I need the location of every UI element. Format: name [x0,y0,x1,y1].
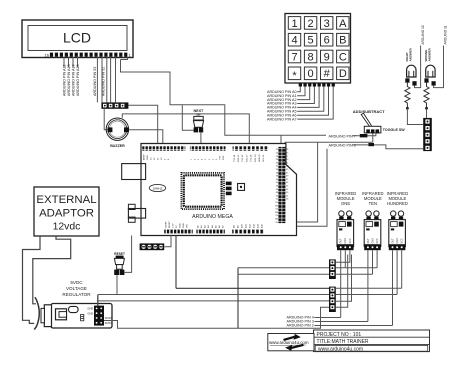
keypad pin row [299,83,335,86]
svg-text:ARDUINO PIN A14: ARDUINO PIN A14 [71,64,75,96]
wire B2 pin4 right riser [336,255,348,308]
svg-text:IOREF: IOREF [165,221,167,228]
wire buzzer left pad to connector J3 pin1 [104,109,108,130]
svg-text:GND: GND [147,155,149,160]
wire row142 from board pins around to bottom pins [285,142,373,222]
svg-text:16: 16 [45,53,50,58]
svg-text:VCC: VCC [376,238,379,243]
svg-text:1: 1 [291,18,297,30]
svg-text:ARDUINO PIN A12: ARDUINO PIN A12 [62,64,66,96]
board right pin block (22-53) [275,147,289,224]
wire row151 loop to board pin 53 [282,149,327,227]
svg-text:GND: GND [344,238,347,244]
wire J2 to board bottom [164,236,171,247]
wire M2 OUT down to pin3 row [367,250,369,321]
label 5VDC VOLTAGE REGULATOR [62,280,91,297]
svg-text:ARDUINO PIN A7: ARDUINO PIN A7 [267,117,297,121]
jumper block pin7 [360,134,368,137]
voltage regulator board VR1 [41,304,112,329]
svg-text:GND: GND [396,238,399,244]
wire buzzer top to board top pin [122,114,249,144]
svg-text:3.3V: 3.3V [173,223,175,228]
svg-text:GN: GN [275,205,279,207]
wire M2 GND down [372,250,374,274]
svg-text:TOGGLE SW: TOGGLE SW [383,128,406,132]
svg-text:OUT: OUT [367,238,370,244]
svg-text:SCL-21: SCL-21 [263,154,265,162]
svg-text:NEXT: NEXT [193,109,204,113]
infrared module M3 [389,211,406,250]
svg-text:ARDUINO MEGA: ARDUINO MEGA [192,214,233,220]
svg-text:TX3-14: TX3-14 [234,154,236,162]
wire M1 GND down [344,250,346,268]
wire LCD pins to buzzer connector [107,57,116,103]
keypad 4x4 KP1 [285,14,351,84]
svg-text:OUT: OUT [391,238,394,244]
svg-text:REGULATOR: REGULATOR [62,292,91,297]
wire regulator 5V out bottom run [104,307,329,328]
wire B2 pin3 right riser [336,255,352,302]
wire M1 OUT down to pin4 row [340,250,342,317]
wire NEXT left pad to LCD route [182,105,193,130]
wire board pin stub to pin7 row [280,135,282,147]
svg-text:ARDUINO PIN 53: ARDUINO PIN 53 [93,67,97,96]
svg-text:RX1-19: RX1-19 [255,154,257,162]
svg-text:8: 8 [308,51,314,63]
jumper block pin6 [368,143,374,146]
svg-text:3: 3 [324,18,330,30]
Arduino Mega board U1 outline [141,144,297,236]
board top pin row group A [142,146,185,150]
LED D2 WRONG ANSWER [424,65,435,85]
svg-text:HUNDRED: HUNDRED [387,201,408,206]
label INFRARED MODULE HUNDRED [387,191,408,206]
wire B1 pin2 to M2 VCC [336,267,377,269]
USB connector [122,164,146,180]
resistor R2 [424,83,429,107]
svg-text:ARDUINO PIN 52: ARDUINO PIN 52 [102,67,106,96]
wire M2 VCC down [376,250,378,268]
svg-text:4: 4 [291,35,297,47]
title block [314,330,430,352]
board bottom pin row group A0-A7 [196,229,224,233]
svg-text:GND: GND [87,307,93,311]
svg-text:ARDUINO PIN 7: ARDUINO PIN 7 [329,134,356,138]
svg-text:TX1-18: TX1-18 [251,154,253,162]
toggle switch SW1 [361,113,381,133]
svg-text:B: B [339,35,346,47]
svg-text:RESET: RESET [169,220,171,228]
power jack [128,204,145,222]
svg-text:DC5V: DC5V [105,321,112,325]
wire VIN stub down from board [175,236,177,289]
svg-text:GND: GND [371,238,374,244]
wire M1 VCC down [336,250,350,262]
svg-text:VOLTAGE: VOLTAGE [66,286,87,291]
LED D1 RIGHT ANSWER [405,65,416,85]
connector J2 under board [140,243,165,250]
wire pin7 row to toggle [353,133,376,135]
wire M3 GND down [396,250,398,294]
svg-text:OUT: OUT [340,238,343,244]
wire branch to B1 pin3 [238,273,329,275]
wire adaptor lead 1 [23,236,41,323]
buzzer BZ1 [106,118,129,140]
resistor R1 [405,83,410,107]
svg-text:VIN: VIN [187,224,189,228]
svg-text:TX2-16: TX2-16 [242,154,244,162]
regulator output header [94,306,104,326]
wire LED D1 anode up / label ARDUINO 10 [415,46,421,88]
svg-text:ARDUINO 10: ARDUINO 10 [421,25,425,44]
svg-text:GND: GND [87,311,93,315]
svg-text:SDA-20: SDA-20 [258,154,261,162]
label INFRARED MODULE TEN [362,191,383,206]
svg-text:RESET: RESET [114,252,125,256]
svg-text:ARDUINO PIN 2: ARDUINO PIN 2 [287,324,314,328]
svg-text:ARDUINO PIN 6: ARDUINO PIN 6 [329,143,356,147]
bottom pin labels (rotated tiny) [165,220,263,228]
svg-text:RX2-17: RX2-17 [246,154,248,162]
wire rail L1 [176,287,329,289]
wire mid vertical down to bottom run [237,268,239,328]
svg-text:5: 5 [308,35,314,47]
svg-text:www.arduino4u.com: www.arduino4u.com [318,346,363,352]
crystal 16MHZ [149,184,165,191]
svg-text:GN: GN [275,219,279,221]
wire LED D2 anode up / label ARDUINO 11 [434,46,444,88]
microcontroller chip ATmega [181,173,224,209]
svg-text:ONE: ONE [341,201,350,206]
svg-text:AREF: AREF [142,154,145,160]
wire R2 to header J4 [426,108,428,118]
board bottom pin row group A8-A15 [232,229,264,233]
wire LCD pin to connector (labelled) [97,57,102,103]
wire reset right pad to board bottom [125,236,132,273]
svg-text:5VDC: 5VDC [70,280,83,285]
DC plug insertion arc [34,297,39,329]
board bottom pin row group power [164,229,193,233]
wire toggle mid pin down to row 142 [372,133,374,142]
svg-text:ANSWER: ANSWER [409,47,413,61]
wire rail L2 [98,294,329,296]
pushbutton NEXT SW [193,109,204,132]
svg-text:LCD: LCD [63,30,91,46]
wire regulator GND up to rail [97,295,99,306]
wire connector J3 to board top pin [128,105,157,143]
header J4 (5 pin) [423,118,432,151]
svg-text:16MHZ: 16MHZ [153,186,163,190]
capacitor bank (3 bars) [226,182,232,196]
wire buzzer right pad to board top pin [129,130,163,144]
wire B2 pin1 to M3 VCC [336,287,402,289]
svg-text:C: C [339,51,347,63]
svg-text:GN: GN [275,212,279,214]
wire LCD data pins down (labelled stubs) [64,57,78,67]
LCD pin header 16..1 [45,53,132,58]
svg-text:ADAPTOR: ADAPTOR [39,208,94,220]
node junction D1 [406,107,409,110]
svg-text:TITLE:MATH TRAINER: TITLE:MATH TRAINER [317,339,369,345]
wire B1 pin3 to M2 GND [336,273,373,275]
pushbutton RESET SW2 [114,252,125,275]
wire adaptor lead 2 [33,236,71,304]
wire reset left pad down to GND rail [116,275,118,295]
svg-text:ADD/SUBTRACT: ADD/SUBTRACT [353,109,385,114]
top pin labels (rotated tiny) [142,154,265,162]
svg-text:DC5V: DC5V [105,316,112,320]
svg-text:7: 7 [291,51,297,63]
svg-text:#: # [324,68,331,80]
node junction D2 [425,107,428,110]
wire regulator 5V rail L3 to B2 pin3 [98,300,329,302]
svg-text:ANSWER: ANSWER [428,47,432,61]
svg-text:0: 0 [308,68,314,80]
wire M3 VCC down [401,250,403,288]
svg-text:A: A [339,18,347,30]
header block B1 (3 pin) [329,259,336,279]
wire LCD pin2 to toggle row (long route) [121,60,327,136]
EXTERNAL ADAPTOR box PS1 [34,187,99,236]
svg-text:PROJECT NO : 101: PROJECT NO : 101 [317,332,362,338]
svg-text:2: 2 [308,18,314,30]
svg-text:D: D [339,68,347,80]
svg-text:GND: GND [180,223,182,228]
svg-text:VCC: VCC [401,238,404,243]
svg-text:RX3-15: RX3-15 [238,154,240,162]
svg-text:ARDUINO 11: ARDUINO 11 [444,25,448,44]
svg-text:*: * [292,70,297,82]
infrared module M2 [364,211,381,250]
header block B2 (4 pin) [329,287,336,312]
svg-text:9: 9 [324,51,330,63]
svg-text:VCC: VCC [349,238,352,243]
wire pin6 row to header J4 [353,145,424,149]
svg-text:ARDUINO PIN A13: ARDUINO PIN A13 [67,64,71,96]
reset button on board [238,184,245,191]
svg-text:ARDUINO PIN A15: ARDUINO PIN A15 [76,64,80,96]
svg-text:TEN: TEN [369,201,377,206]
wire mid vertical to B1 [238,267,329,269]
wire B2 pin2 to M3 GND [336,294,397,296]
wire NEXT right pad to board top pin [200,132,202,143]
wire M3 OUT down to pin2 row [392,250,394,325]
svg-text:EXTERNAL: EXTERNAL [36,194,96,206]
board top pin row group B [190,146,226,150]
wire LCD pin1 jog [121,57,128,60]
svg-text:6: 6 [324,35,330,47]
board top pin row group C [233,146,269,150]
svg-text:GND: GND [183,223,185,228]
svg-text:12vdc: 12vdc [53,222,81,233]
infrared module M1 [337,211,354,250]
logo box www.arduino4u.com [268,334,314,351]
label INFRARED MODULE ONE [335,191,356,206]
connector J3 under LCD [101,102,128,108]
wire R1 to header J4 [407,108,423,124]
LCD module U2 [22,20,133,58]
svg-text:BUZZER: BUZZER [110,144,125,148]
